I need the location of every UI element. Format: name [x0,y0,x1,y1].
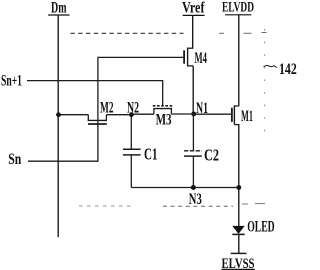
node N3 junction dot and label [189,185,202,208]
svg-text:M2: M2 [100,99,114,116]
junction dot on Dm line at M2 source [56,112,61,117]
leader squiggle to 142 [264,65,277,67]
svg-text:ELVDD: ELVDD [222,0,254,15]
dashed pixel boundary 142 right edge [264,29,266,135]
transistor M2 [59,99,132,124]
svg-text:Sn+1: Sn+1 [1,72,22,89]
capacitor C1 [123,115,158,188]
svg-text:N3: N3 [189,191,202,208]
wire node N3 horizontal [131,187,239,189]
svg-text:OLED: OLED [247,219,275,236]
svg-text:Sn: Sn [8,151,21,168]
net label ELVDD [222,0,254,15]
net label Dm [48,0,70,17]
wire M4/M2 gate line (horizontal) [98,56,184,58]
wire M3 to node N1 [171,113,194,115]
OLED diode [232,219,274,254]
wire Sn scan line [28,160,99,162]
svg-text:M4: M4 [195,50,208,67]
wire Vref line down to M4 [192,15,194,48]
capacitor C2 [184,114,219,188]
svg-text:M1: M1 [241,108,253,125]
dashed pixel boundary 142 bottom edge [79,204,265,207]
svg-text:M3: M3 [156,112,172,129]
junction dot N3 on ELVDD/OLED rail [236,185,241,190]
scan line label Sn+1 [1,72,22,89]
wire Dm data line (vertical) [57,15,59,237]
transistor M1 [232,105,253,125]
svg-text:Dm: Dm [51,0,67,17]
wire N1 to M1 gate [194,113,232,115]
wire M1 source down to OLED [238,125,240,226]
svg-text:Vref: Vref [182,0,205,17]
wire gate drop to Sn line (vertical) [97,57,99,161]
transistor M4 [184,48,207,67]
scan line label Sn [8,151,21,168]
node N1 [191,100,208,117]
transistor M3 [153,106,173,129]
node N2 [127,99,139,117]
svg-text:C1: C1 [144,145,158,164]
wire N2 to M3 [131,113,154,115]
label 142 [279,61,297,78]
svg-text:142: 142 [279,61,297,78]
ELVSS terminal [222,253,255,270]
svg-text:C2: C2 [204,145,219,164]
net label Vref [182,0,205,17]
wire M4 drain down to node N1 [192,66,194,114]
wire Sn+1 scan line [27,81,163,106]
dashed pixel boundary 142 top edge [70,32,266,35]
wire ELVDD rail down to M1 [238,15,240,106]
svg-text:ELVSS: ELVSS [222,256,255,270]
